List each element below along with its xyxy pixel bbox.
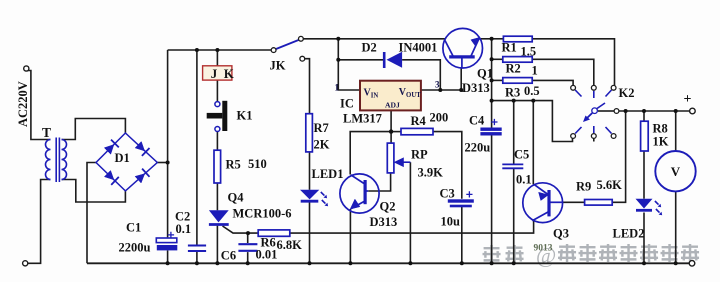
svg-text:IC: IC bbox=[340, 97, 354, 111]
svg-text:R2: R2 bbox=[506, 62, 521, 76]
svg-text:Q1: Q1 bbox=[477, 67, 493, 81]
svg-text:D1: D1 bbox=[115, 151, 130, 165]
svg-text:C1: C1 bbox=[126, 221, 141, 235]
svg-text:IN4001: IN4001 bbox=[399, 41, 438, 55]
svg-text:+: + bbox=[684, 92, 692, 107]
svg-text:220u: 220u bbox=[465, 141, 491, 155]
svg-text:LED1: LED1 bbox=[312, 167, 344, 181]
svg-text:LED2: LED2 bbox=[613, 227, 645, 241]
svg-text:K2: K2 bbox=[619, 86, 635, 100]
svg-text:RP: RP bbox=[411, 148, 428, 162]
svg-text:0.1: 0.1 bbox=[176, 222, 192, 236]
svg-text:C6: C6 bbox=[221, 249, 236, 263]
svg-text:Q3: Q3 bbox=[553, 227, 569, 241]
svg-text:C4: C4 bbox=[469, 114, 485, 128]
svg-text:3: 3 bbox=[435, 80, 440, 90]
svg-text:D313: D313 bbox=[462, 81, 490, 95]
svg-text:C3: C3 bbox=[440, 187, 455, 201]
svg-text:5.6K: 5.6K bbox=[597, 178, 623, 192]
svg-text:R3: R3 bbox=[505, 86, 520, 100]
svg-text:0.01: 0.01 bbox=[256, 248, 278, 262]
svg-text:R4: R4 bbox=[411, 114, 427, 128]
svg-text:1K: 1K bbox=[653, 135, 669, 149]
svg-text:R8: R8 bbox=[653, 122, 668, 136]
svg-text:2200u: 2200u bbox=[119, 241, 151, 255]
svg-text:2K: 2K bbox=[314, 138, 330, 152]
svg-text:1.5: 1.5 bbox=[521, 45, 537, 59]
svg-text:T: T bbox=[42, 125, 51, 140]
svg-text:Q4: Q4 bbox=[228, 191, 245, 205]
svg-text:1: 1 bbox=[335, 83, 340, 93]
svg-text:R7: R7 bbox=[314, 121, 329, 135]
svg-text:R6: R6 bbox=[261, 236, 276, 250]
svg-text:Q2: Q2 bbox=[380, 200, 396, 214]
svg-text:R9: R9 bbox=[576, 180, 591, 194]
svg-text:C5: C5 bbox=[514, 148, 529, 162]
svg-text:J K: J K bbox=[211, 66, 236, 81]
svg-text:D2: D2 bbox=[362, 41, 377, 55]
svg-text:510: 510 bbox=[248, 157, 267, 171]
svg-text:200: 200 bbox=[430, 111, 449, 125]
svg-text:0.1: 0.1 bbox=[516, 173, 532, 187]
svg-text:AC220V: AC220V bbox=[16, 81, 30, 127]
svg-text:6.8K: 6.8K bbox=[277, 238, 303, 252]
svg-text:R1: R1 bbox=[502, 41, 517, 55]
svg-text:R5: R5 bbox=[226, 158, 241, 172]
svg-text:JK: JK bbox=[270, 59, 286, 73]
svg-text:MCR100-6: MCR100-6 bbox=[233, 207, 292, 221]
svg-text:K1: K1 bbox=[237, 109, 253, 123]
svg-text:ADJ: ADJ bbox=[385, 100, 400, 109]
svg-text:3.9K: 3.9K bbox=[418, 166, 444, 180]
svg-text:0.5: 0.5 bbox=[524, 84, 540, 98]
svg-text:V: V bbox=[671, 164, 681, 179]
svg-text:D313: D313 bbox=[370, 215, 398, 229]
svg-text:LM317: LM317 bbox=[343, 112, 382, 126]
svg-text:1: 1 bbox=[532, 64, 538, 78]
svg-text:10u: 10u bbox=[441, 215, 461, 229]
